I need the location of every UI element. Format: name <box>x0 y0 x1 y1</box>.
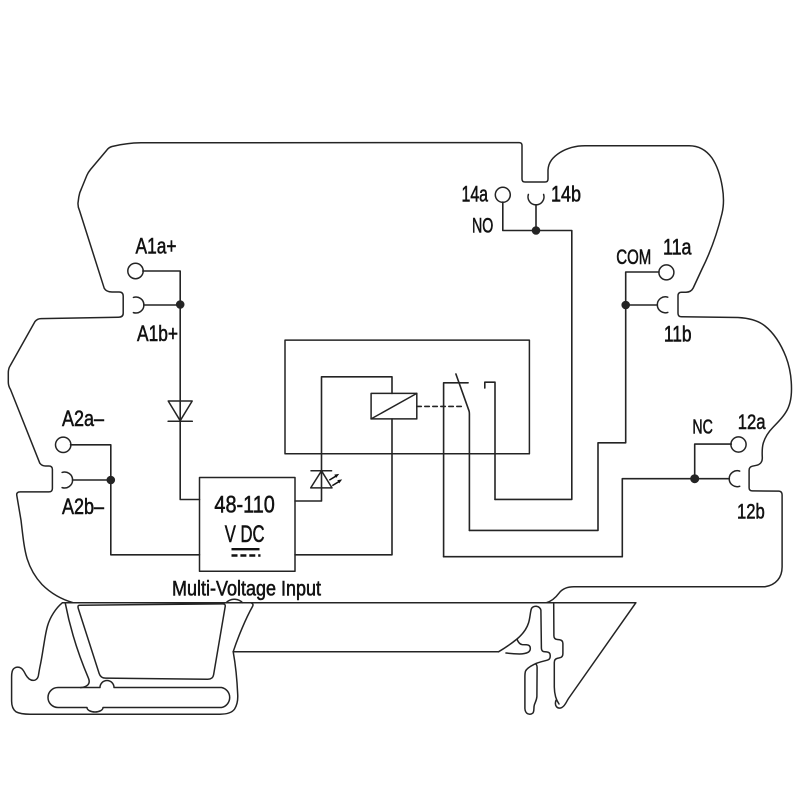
wire A2 node to 48-110 box <box>111 480 200 555</box>
svg-text:V DC: V DC <box>225 521 265 548</box>
node A1 junction <box>176 300 185 309</box>
relay enclosure box <box>285 340 529 454</box>
LED arrow 1 <box>329 476 336 480</box>
svg-text:14a: 14a <box>462 182 489 207</box>
svg-text:A1b+: A1b+ <box>137 321 178 346</box>
right clip diagonal <box>555 603 635 708</box>
terminal A1b clamp arc <box>133 297 143 313</box>
right clip channel right wall <box>554 603 563 704</box>
svg-text:NO: NO <box>472 214 493 237</box>
left foot window <box>78 604 225 679</box>
DC symbol solid line <box>232 548 260 550</box>
wire COM to switch blade <box>469 305 625 530</box>
left foot finger edge <box>233 603 253 652</box>
left foot outer outline <box>12 603 238 714</box>
node 11 junction <box>621 301 630 310</box>
wire 11a to node <box>626 272 659 305</box>
terminal 14b clamp arc <box>528 194 544 204</box>
svg-text:11b: 11b <box>664 322 692 347</box>
svg-text:NC: NC <box>692 416 713 439</box>
svg-text:COM: COM <box>616 246 651 269</box>
wire 14a down <box>503 202 536 230</box>
wire A1 node to diode <box>179 305 181 422</box>
svg-text:11a: 11a <box>663 235 692 260</box>
DIN rail line <box>233 651 498 653</box>
wire A1a to node <box>143 271 180 305</box>
switch fixed contact NO side with hook <box>485 382 495 499</box>
module body outline <box>8 143 791 603</box>
module bottom edge line <box>63 602 636 604</box>
wire coil bottom to box <box>295 419 392 555</box>
LED D2 <box>311 471 332 488</box>
LED arrow 2 <box>332 482 339 486</box>
svg-text:14b: 14b <box>551 182 581 207</box>
svg-text:Multi-Voltage Input: Multi-Voltage Input <box>172 578 321 601</box>
svg-text:A1a+: A1a+ <box>136 234 177 259</box>
wire 12a to node <box>695 444 732 479</box>
svg-text:A2a–: A2a– <box>62 406 105 431</box>
node 14 junction <box>532 226 541 235</box>
terminal 11b clamp arc <box>657 297 667 313</box>
svg-text:48-110: 48-110 <box>214 491 275 518</box>
svg-text:A2b–: A2b– <box>62 494 105 519</box>
wire A2a to node <box>71 445 111 480</box>
left foot slot <box>48 681 230 713</box>
node A2 junction <box>107 476 116 485</box>
terminal A2b clamp arc <box>62 472 72 488</box>
power supply box 48-110 V DC <box>200 478 296 572</box>
left foot finger hump <box>226 599 243 603</box>
wire 48-110 box through LED to relay coil <box>295 377 392 501</box>
svg-text:12a: 12a <box>738 410 766 434</box>
wire 12b to node <box>695 478 730 480</box>
coil diagonal <box>371 393 417 419</box>
switch fixed contact NC side <box>444 383 469 557</box>
left foot leg left line <box>65 603 89 688</box>
terminal A1a circle <box>128 263 143 278</box>
DC symbol dashed line <box>232 554 261 556</box>
wire diode to 48-110 box <box>180 421 199 499</box>
wire A1b to node <box>144 304 180 306</box>
relay coil K1 <box>371 393 417 419</box>
terminal A2a circle <box>56 437 71 452</box>
wire NC contact to node 12 <box>444 479 695 557</box>
terminal 14a circle <box>495 187 510 202</box>
svg-text:12b: 12b <box>737 499 765 523</box>
wire 14b down <box>535 205 537 231</box>
dashed actuation line <box>417 405 465 407</box>
terminal 12a circle <box>731 437 746 452</box>
wire A2b to node <box>73 479 111 481</box>
wire 11b to node <box>626 304 658 306</box>
terminal 11a circle <box>659 265 674 280</box>
switch blade <box>456 374 470 530</box>
right clip finger, channel left wall and lower prong <box>499 606 551 714</box>
wire NO to switch contact <box>495 231 572 500</box>
right clip toe <box>506 639 530 654</box>
diode D1 <box>168 401 192 421</box>
node 12 junction <box>690 474 699 483</box>
terminal 12b clamp arc <box>729 471 739 487</box>
